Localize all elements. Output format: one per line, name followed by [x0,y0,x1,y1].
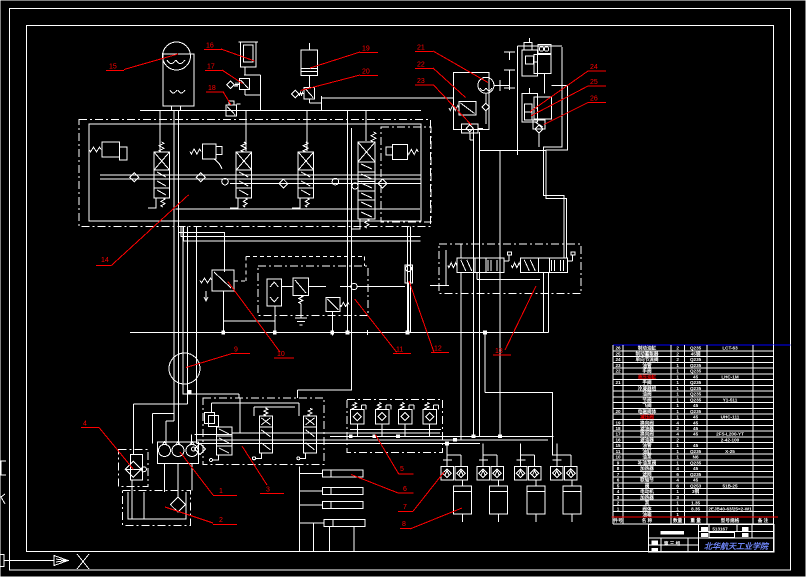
wire 13b stems to main line [543,273,545,333]
wire h390 segs [183,393,239,395]
datum box at left edge [0,555,4,567]
phantom box unit4 [381,127,431,222]
relief pilot 11 [293,278,309,296]
svg-text:3: 3 [676,495,679,500]
cylinder [563,486,581,514]
wire 19 to 20 [308,76,310,88]
assembly 25 cylinder [534,97,552,119]
wire bank corner long b [184,227,421,242]
callout 6 underline [398,492,414,494]
manifold drop wires [159,111,161,151]
svg-text:2: 2 [219,517,223,524]
wire pump feed right [191,435,193,445]
main horizontal line y332 [130,332,549,334]
svg-text:1: 1 [676,415,679,420]
parts table blue top line [613,344,791,346]
title block name bar [661,531,684,534]
pump 1c [186,445,198,457]
svg-text:45: 45 [693,374,699,379]
svg-text:Q235: Q235 [690,380,702,385]
svg-text:3: 3 [617,495,620,500]
callout 22 leader [433,68,466,98]
svg-text:45: 45 [693,426,699,431]
svg-text:45: 45 [693,403,699,408]
svg-text:20: 20 [615,409,621,414]
svg-text:北华航天工业学院: 北华航天工业学院 [704,541,770,551]
heater 6b [322,488,331,495]
svg-text:23: 23 [615,363,621,368]
svg-text:备 注: 备 注 [757,517,769,524]
filter 4 inner rect [131,455,143,480]
relief bank 5 phantom box [347,400,443,453]
svg-text:Q235: Q235 [690,346,702,351]
callout 24 leader [530,71,588,112]
valve 23 [461,124,478,133]
callout 14 leader [112,195,189,265]
svg-text:8: 8 [617,466,620,471]
throttle square R [455,467,468,480]
svg-text:4: 4 [617,489,620,494]
assembly 24 main valve [522,50,538,76]
title block mark c [702,534,708,537]
callout 25 leader [531,86,588,116]
svg-text:19: 19 [615,420,621,425]
check diamond block3 [195,444,206,455]
wire 20 to pump2 block [321,97,453,99]
wire v351 bank down [351,128,353,390]
svg-text:18: 18 [208,85,216,92]
directional valve 13b [520,258,567,273]
wire jog left to filter4 [134,403,188,405]
svg-text:15: 15 [615,443,621,448]
title block outline [649,524,774,552]
valve unit foot [148,198,156,208]
callout 13 underline [493,354,511,356]
svg-text:23: 23 [417,78,425,85]
bank drain line [176,208,420,210]
pump 1b [172,445,184,457]
svg-text:1: 1 [676,512,679,517]
wire h150 [480,149,546,151]
valve unit solenoid box [154,152,170,170]
valve unit solenoid box [236,152,252,170]
svg-text:2: 2 [676,352,679,357]
wire 10 bottom loop [222,291,224,333]
valve unit spring [303,142,308,152]
coupling bars [504,51,515,53]
svg-text:8: 8 [402,521,406,528]
wire valve26 stem [538,134,540,147]
assembly 24 cylinder [534,55,551,74]
svg-text:4: 4 [676,478,679,483]
svg-text:10: 10 [615,455,621,460]
callout 7 underline [398,510,413,512]
callout 24 underline [588,70,606,72]
svg-text:16: 16 [615,438,621,443]
callout 20 underline [360,75,378,77]
valve 10 drain [205,291,207,301]
svg-text:1: 1 [676,449,679,454]
wire block5 bus [350,429,441,431]
svg-text:1: 1 [676,403,679,408]
callout 19 leader [310,52,360,68]
valve unit foot [230,198,238,208]
svg-text:1: 1 [676,392,679,397]
pilot dashed link [234,280,246,282]
svg-text:6: 6 [676,472,679,477]
heater feed line [298,466,300,551]
title block mark b [742,528,748,531]
svg-text:数量: 数量 [673,517,683,524]
port circle [351,283,357,289]
svg-text:10: 10 [277,351,285,358]
bus line y436 [330,435,554,437]
svg-text:Q235: Q235 [690,449,702,454]
svg-text:2EJB40-63/25×2-W1: 2EJB40-63/25×2-W1 [708,506,752,511]
svg-text:1.35: 1.35 [691,501,700,506]
throttle square L [477,467,490,480]
throttle square R [565,467,578,480]
svg-text:21: 21 [417,45,425,52]
callout 26 leader [544,103,588,125]
axis label X [77,554,89,569]
wire x500 down [499,150,501,436]
wire 13 left entry [430,285,449,287]
callout 6 leader [351,475,398,493]
callout 9 leader [186,354,232,368]
callout 16 leader [221,49,255,61]
svg-text:1: 1 [676,363,679,368]
svg-text:22: 22 [417,62,425,69]
wire 20 down riser [308,99,310,103]
assembly 24 wires [534,61,538,63]
svg-text:19: 19 [362,46,370,53]
assembly 25 wires [534,107,538,109]
callout 17 underline [205,70,223,72]
directional valve 13a [457,258,504,273]
svg-text:2FS-L200-YT: 2FS-L200-YT [716,432,744,437]
svg-text:Q253: Q253 [690,483,702,488]
svg-text:1: 1 [676,443,679,448]
tank 2 filter diamond [171,497,186,512]
svg-text:UHC-111: UHC-111 [721,415,740,420]
callout 17 leader [222,70,243,84]
svg-text:6: 6 [403,486,407,493]
svg-text:Y1-511: Y1-511 [723,397,738,402]
check diamond d [279,179,288,188]
relief valve 5c [400,403,404,410]
wire bank corner long a [181,227,421,237]
svg-text:Q235: Q235 [690,363,702,368]
flow divider circle 9 [169,353,200,384]
cylinder rod wire [535,480,537,486]
svg-text:LHC-1M: LHC-1M [721,374,739,379]
reducing valve 10 [212,270,234,291]
svg-text:1: 1 [676,409,679,414]
svg-text:2: 2 [676,426,679,431]
junction tick a [331,330,333,336]
callout 10 leader [228,281,280,352]
accumulator 16 [240,42,256,67]
callout 3 underline [260,493,284,495]
wire 16-17 riser [244,74,260,76]
manifold line y110.7 [140,110,421,112]
junction dots [222,331,225,334]
pump 15 body rect [163,54,194,106]
valve 26 [533,120,545,129]
pump 21 enclosure [454,73,490,130]
svg-text:12: 12 [434,346,442,353]
svg-text:2: 2 [676,346,679,351]
title block mark f [652,548,658,551]
svg-text:LCT-63: LCT-63 [722,346,738,351]
svg-text:51B-25: 51B-25 [722,483,738,488]
bank bus line third [230,183,421,185]
wire v407 pair [407,227,409,333]
svg-text:513167: 513167 [712,527,728,532]
coupling shaft [494,84,510,86]
axis arrow line [4,560,54,562]
svg-text:26: 26 [615,346,621,351]
wire bank corner to valve10 [179,227,225,272]
wire pumps down [164,464,166,493]
svg-text:名 称: 名 称 [642,517,653,524]
heater 6a [322,470,331,477]
svg-text:Q235: Q235 [690,357,702,362]
bus line y433 [232,432,440,434]
svg-text:25: 25 [615,352,621,357]
heater 6c [322,502,331,509]
check valve 11 [267,279,282,306]
valve unit spring [241,142,246,152]
check diamond 22 [482,103,490,111]
svg-text:4: 4 [83,421,87,428]
pilot valve 11b [326,298,340,312]
valve 3 column 3 [308,408,312,416]
svg-text:Q235: Q235 [690,386,702,391]
svg-text:件号: 件号 [613,517,623,524]
svg-text:Q235: Q235 [690,472,702,477]
valve unit 4 foot [352,219,360,229]
svg-text:Q235: Q235 [690,392,702,397]
wire pump15 down legs [171,106,173,111]
throttle square L [441,467,454,480]
callout 8 underline [400,528,412,530]
svg-text:20: 20 [362,69,370,76]
callout 14 underline [96,264,112,266]
relief valve 5b [377,403,381,410]
callout 18 underline [206,91,224,93]
svg-text:油箱: 油箱 [642,511,652,518]
valve unit foot spring [305,198,309,207]
svg-text:25: 25 [590,79,598,86]
svg-text:2: 2 [676,357,679,362]
check diamond a [130,173,139,182]
svg-text:1: 1 [676,386,679,391]
pump group 1 box [157,442,198,464]
valve 3 column 1 [217,427,233,455]
cylinder [527,486,545,514]
pilot relief 4 [392,145,407,160]
title block mark a [702,528,708,531]
svg-text:Q235: Q235 [690,397,702,402]
relief valve 5a [353,403,357,410]
assembly 25 main valve [522,94,538,123]
callout 1 leader [180,452,213,495]
callout 21 underline [415,51,433,53]
svg-text:5: 5 [617,483,620,488]
svg-text:22: 22 [615,369,621,374]
svg-text:1: 1 [676,489,679,494]
callout 22 underline [415,68,433,70]
wire 13 stems [460,273,462,440]
svg-text:6: 6 [676,483,679,488]
check diamond f [378,179,387,188]
bus line y443 [197,443,481,445]
junction tick b [366,330,368,335]
svg-text:4: 4 [676,432,679,437]
check circle c [222,178,229,185]
cylinder rod wire [571,480,573,486]
wire assembly24 down link [544,74,546,94]
title block mark d [742,534,748,537]
svg-text:1: 1 [676,460,679,465]
throttle square R [528,467,541,480]
valve unit spring [159,142,164,152]
svg-text:6: 6 [617,478,620,483]
svg-text:14: 14 [101,257,109,264]
svg-text:N6: N6 [693,455,699,460]
motor group feed [446,444,448,467]
svg-text:16: 16 [206,43,214,50]
assembly 24 pilot box [524,43,532,51]
svg-text:3: 3 [266,487,270,494]
title block mark e [652,541,658,544]
wire block3 top [212,402,300,404]
pilot relief 2 [203,144,217,159]
title block small box [709,533,735,538]
wire kinked route b [546,85,567,258]
pilot relief 1 [102,142,120,157]
svg-text:1: 1 [676,374,679,379]
check diamond g [352,183,358,189]
pump 15 circle [163,42,191,70]
cylinder [489,486,507,514]
valve unit foot [292,198,300,208]
motor group feed [520,444,522,467]
relief valve 5d [425,403,429,410]
svg-text:7: 7 [403,504,407,511]
callout 1 underline [213,495,237,497]
bank bus line upper [100,174,421,176]
motor group feed [482,444,484,467]
svg-text:45: 45 [693,415,699,420]
pump 15 inner arcs [167,60,185,64]
check diamond b [196,173,205,182]
svg-text:1: 1 [219,488,223,495]
throttle square L [514,467,527,480]
valve group 13 phantom box [439,244,581,294]
valve 17 [227,81,235,89]
cylinder rod wire [461,480,463,486]
throttle square L [551,467,564,480]
callout 25 underline [588,85,606,87]
check circle e [332,178,339,185]
svg-text:45: 45 [693,466,699,471]
left edge mark A [1,461,6,475]
wire pump2 down legs [473,130,475,437]
valve unit foot spring [243,198,247,207]
wire mid block bus [282,286,294,288]
wire kinked route a [544,47,564,258]
valve block 3 phantom box [203,398,324,465]
callout 12 leader [409,281,434,352]
bank bus line lower [100,178,421,180]
callout 2 underline [213,524,237,526]
svg-text:8.35: 8.35 [691,506,700,511]
parts table grid [613,350,774,352]
callout 20 leader [301,75,361,91]
cylinder rod wire [497,480,499,486]
axis arrowhead [54,556,68,566]
svg-text:2: 2 [617,501,620,506]
callout 16 underline [204,49,222,51]
wire pump feed left [152,413,154,443]
cylinder [453,486,471,514]
valve unit spool [154,170,170,198]
throttle square R [491,467,504,480]
valve unit solenoid box [298,152,314,170]
valve block 10-11 phantom box [258,266,368,316]
wire route to group D [485,393,557,455]
svg-text:9: 9 [234,347,238,354]
svg-text:第 三 组: 第 三 组 [664,540,681,547]
callout 15 leader [124,54,178,70]
svg-text:2: 2 [676,438,679,443]
svg-text:17: 17 [615,432,621,437]
callout 18 leader [223,92,231,106]
svg-text:11: 11 [616,449,621,454]
svg-text:15: 15 [109,64,117,71]
wire pump box link [194,434,232,436]
valve unit spool [298,170,314,198]
svg-text:7: 7 [617,472,620,477]
svg-text:1: 1 [676,501,679,506]
wire tank interior [143,492,145,519]
title block dividers [697,524,699,552]
pump 21 circle [478,77,494,93]
svg-text:9: 9 [617,460,620,465]
svg-text:3钢: 3钢 [692,488,700,495]
valve bank phantom box [79,119,431,226]
svg-text:26: 26 [590,96,598,103]
callout 11 leader [355,299,397,352]
parts table red separator line [612,516,779,518]
svg-text:21: 21 [615,380,621,385]
callout 23 underline [415,84,433,86]
wire bundle v4 [187,227,189,405]
pump 1a [159,445,171,457]
wire assembly25 link [552,84,568,86]
valve unit 4 solenoid [371,132,376,142]
wire bundle v1 [173,111,175,422]
svg-text:24: 24 [615,357,621,362]
filter 4 diamond [125,461,141,477]
svg-text:45: 45 [693,443,699,448]
callout 3 leader [242,446,267,485]
callout 5 underline [399,473,414,475]
wire heater bottom stubs [313,523,315,552]
